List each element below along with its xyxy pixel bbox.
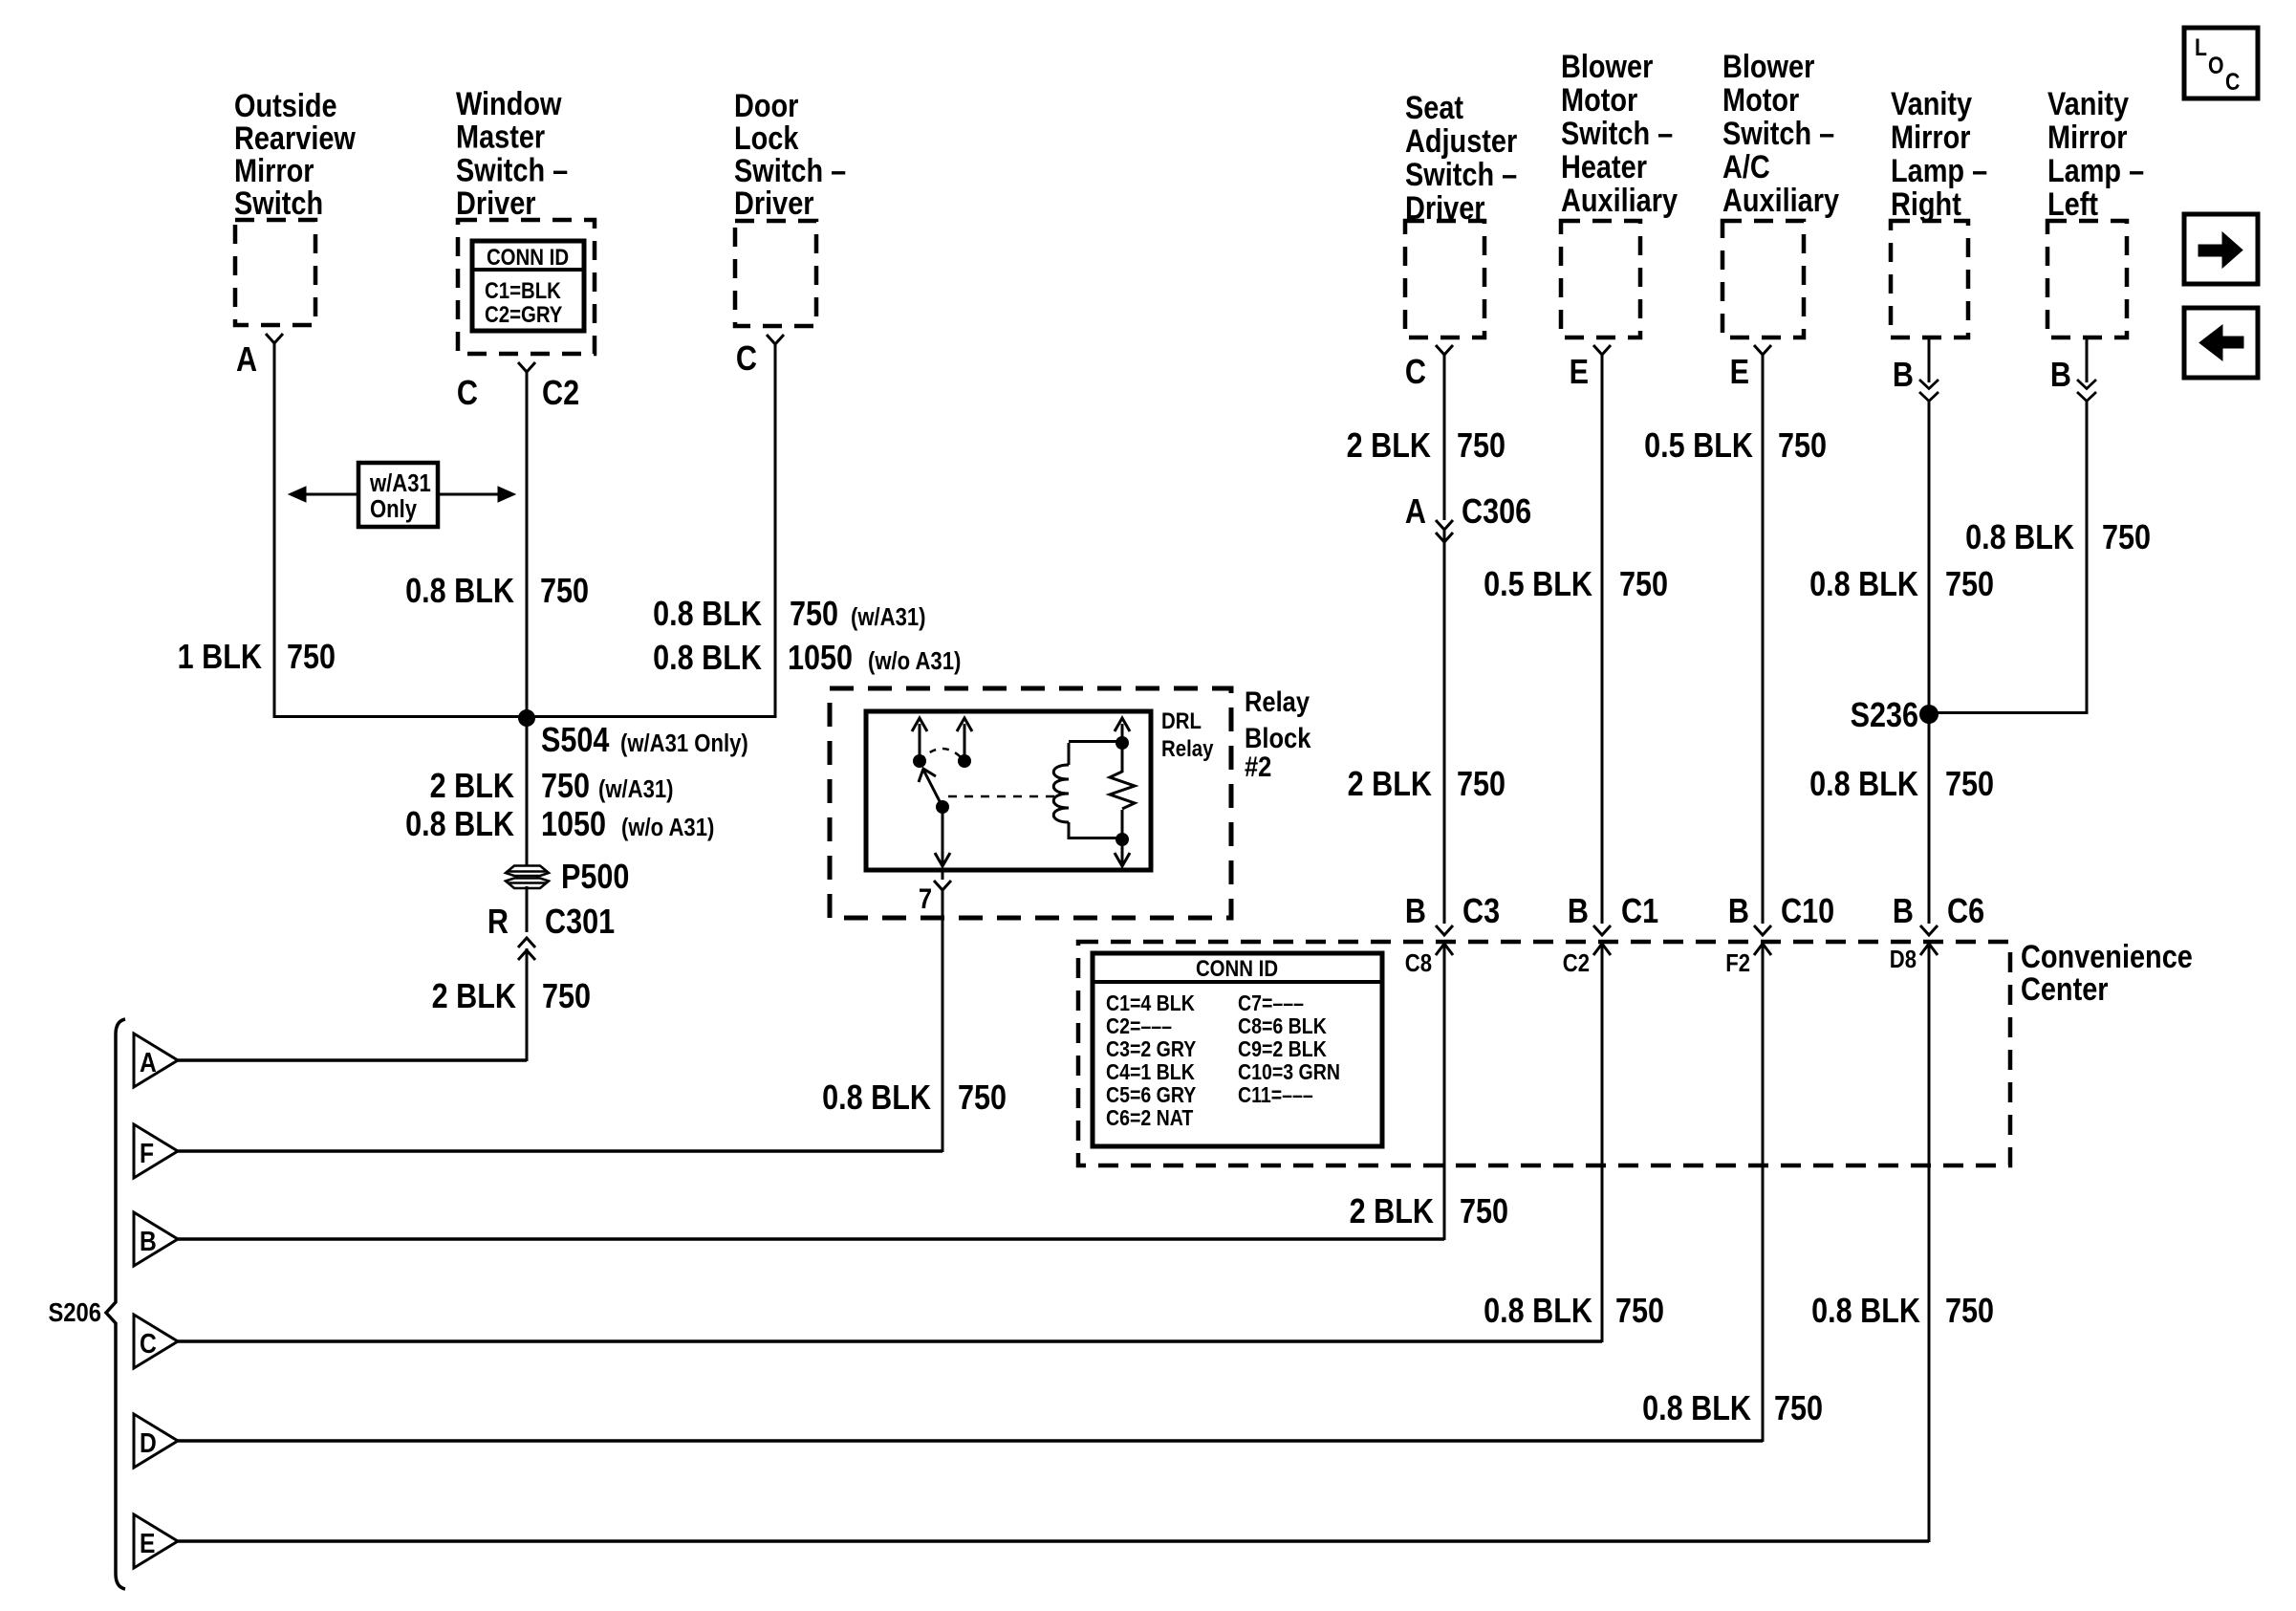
svg-text:750: 750 bbox=[1615, 1293, 1664, 1331]
relay contact: fixed pin arrow up (left) bbox=[919, 724, 921, 761]
next-page arrow box (right arrow) bbox=[2184, 214, 2258, 284]
svg-text:C7=–––: C7=––– bbox=[1238, 991, 1304, 1016]
svg-text:B: B bbox=[2050, 357, 2071, 395]
off-page double arrow (Vanity Left wire) bbox=[2086, 337, 2089, 382]
svg-text:R: R bbox=[487, 903, 509, 942]
svg-text:Driver: Driver bbox=[734, 185, 814, 222]
svg-text:750: 750 bbox=[540, 573, 589, 611]
svg-text:P500: P500 bbox=[561, 859, 629, 897]
svg-text:Mirror: Mirror bbox=[1891, 119, 1970, 156]
svg-text:A/C: A/C bbox=[1722, 148, 1770, 185]
svg-text:A: A bbox=[140, 1047, 157, 1078]
svg-text:750: 750 bbox=[1945, 1293, 1994, 1331]
svg-text:Motor: Motor bbox=[1561, 81, 1637, 119]
svg-text:F: F bbox=[140, 1138, 154, 1168]
relay common wire down with arrowhead bbox=[942, 807, 944, 863]
svg-text:C: C bbox=[457, 375, 478, 413]
svg-text:0.8 BLK: 0.8 BLK bbox=[1809, 566, 1918, 604]
svg-text:Mirror: Mirror bbox=[2047, 119, 2127, 156]
svg-text:2 BLK: 2 BLK bbox=[430, 768, 514, 806]
svg-text:C3=2 GRY: C3=2 GRY bbox=[1106, 1037, 1196, 1062]
wire: Outside Rearview Mirror Switch pin A down bbox=[273, 343, 276, 718]
svg-text:750: 750 bbox=[1945, 766, 1994, 804]
svg-text:DRL: DRL bbox=[1161, 708, 1202, 733]
svg-text:2 BLK: 2 BLK bbox=[1348, 766, 1432, 804]
svg-text:Seat: Seat bbox=[1405, 89, 1463, 126]
S206 terminal triangle A bbox=[134, 1034, 178, 1087]
connector box: Vanity Mirror Lamp Right bbox=[1891, 221, 1968, 337]
wire: S206 leg E horizontal bbox=[176, 1539, 1929, 1543]
svg-text:B: B bbox=[140, 1226, 157, 1256]
svg-text:0.8 BLK: 0.8 BLK bbox=[1642, 1390, 1751, 1428]
svg-text:750: 750 bbox=[1774, 1390, 1823, 1428]
wire: S206 leg D horizontal bbox=[176, 1439, 1763, 1443]
connector box: Outside Rearview Mirror Switch bbox=[235, 220, 315, 325]
connector box: Blower Motor Switch A/C Auxiliary bbox=[1722, 221, 1804, 337]
splice S236 junction dot bbox=[1919, 705, 1939, 724]
svg-text:750: 750 bbox=[1460, 1193, 1508, 1231]
pin chevron C (Door Lock Switch) bbox=[767, 335, 784, 344]
svg-text:S504: S504 bbox=[541, 722, 610, 760]
svg-text:Auxiliary: Auxiliary bbox=[1722, 182, 1839, 219]
svg-text:Lamp –: Lamp – bbox=[1891, 152, 1987, 189]
svg-text:1 BLK: 1 BLK bbox=[178, 639, 262, 677]
svg-text:C4=1 BLK: C4=1 BLK bbox=[1106, 1060, 1195, 1085]
S206 terminal triangle D bbox=[134, 1414, 178, 1468]
svg-text:B: B bbox=[1728, 893, 1749, 931]
svg-text:Switch –: Switch – bbox=[456, 151, 568, 188]
relay contact dot right bbox=[958, 754, 971, 768]
LOC legend box bbox=[2184, 28, 2258, 98]
svg-text:2 BLK: 2 BLK bbox=[432, 978, 516, 1016]
svg-text:C301: C301 bbox=[545, 903, 615, 942]
svg-text:Rearview: Rearview bbox=[234, 120, 356, 157]
svg-text:750: 750 bbox=[790, 596, 838, 634]
svg-text:Window: Window bbox=[456, 85, 562, 122]
svg-text:C8=6 BLK: C8=6 BLK bbox=[1238, 1014, 1327, 1039]
wire: Door Lock Switch C down bbox=[774, 344, 777, 718]
junction dot resistor bottom bbox=[1116, 833, 1129, 846]
svg-text:C1: C1 bbox=[1621, 893, 1658, 931]
relay contact dot left bbox=[913, 754, 926, 768]
relay pin 7 stub below box bbox=[942, 870, 944, 880]
svg-text:F2: F2 bbox=[1725, 949, 1750, 977]
svg-text:#2: #2 bbox=[1245, 751, 1271, 782]
S206 terminal triangle F bbox=[134, 1124, 178, 1178]
svg-text:1050: 1050 bbox=[541, 806, 606, 844]
relay armature arm with arrowhead bbox=[923, 770, 942, 807]
wire: trunk below P500 bbox=[526, 886, 529, 932]
svg-text:(w/A31): (w/A31) bbox=[851, 603, 926, 631]
svg-text:0.5 BLK: 0.5 BLK bbox=[1644, 427, 1753, 466]
svg-text:Vanity: Vanity bbox=[1891, 85, 1973, 122]
svg-text:Blower: Blower bbox=[1722, 48, 1814, 85]
svg-text:7: 7 bbox=[919, 882, 932, 914]
relay resistor zigzag bbox=[1110, 772, 1135, 809]
svg-text:A: A bbox=[236, 341, 257, 380]
svg-text:A: A bbox=[1405, 493, 1426, 532]
svg-text:C2: C2 bbox=[1563, 949, 1590, 977]
svg-text:C2: C2 bbox=[542, 375, 579, 413]
CONN ID table (Convenience Center) bbox=[1093, 953, 1382, 1146]
svg-text:0.8 BLK: 0.8 BLK bbox=[405, 573, 514, 611]
cavity arrow D8 into convenience center bbox=[1928, 944, 1931, 1542]
svg-text:Lock: Lock bbox=[734, 120, 799, 157]
svg-text:CONN ID: CONN ID bbox=[487, 244, 569, 270]
svg-text:B: B bbox=[1405, 893, 1426, 931]
arrow right from w/A31 box bbox=[438, 493, 498, 496]
svg-text:Lamp –: Lamp – bbox=[2047, 152, 2144, 189]
S206 terminal triangle E bbox=[134, 1514, 178, 1568]
svg-text:750: 750 bbox=[1457, 427, 1505, 466]
svg-text:Relay: Relay bbox=[1161, 735, 1214, 761]
connector box: Blower Motor Switch Heater Auxiliary bbox=[1561, 221, 1640, 337]
svg-text:Switch: Switch bbox=[234, 185, 323, 222]
svg-text:C1=BLK: C1=BLK bbox=[485, 277, 561, 303]
svg-text:Driver: Driver bbox=[456, 185, 536, 222]
connector box: Vanity Mirror Lamp Left bbox=[2047, 221, 2127, 337]
wire: trunk below S504 bbox=[526, 718, 529, 866]
svg-text:Only: Only bbox=[370, 495, 418, 523]
svg-text:1050: 1050 bbox=[788, 640, 853, 678]
previous-page arrow box (left arrow) bbox=[2184, 308, 2258, 378]
svg-text:CONN ID: CONN ID bbox=[1196, 955, 1278, 981]
svg-text:750: 750 bbox=[542, 978, 591, 1016]
cavity arrow F2 into convenience center bbox=[1762, 944, 1765, 1442]
svg-text:C306: C306 bbox=[1462, 493, 1531, 532]
svg-text:B: B bbox=[1568, 893, 1589, 931]
svg-text:O: O bbox=[2208, 52, 2224, 78]
relay resistor branch top arrow bbox=[1121, 724, 1124, 773]
pin chevron C (Seat Adjuster Switch) bbox=[1436, 345, 1453, 355]
wire: Window Master Switch C2 down bbox=[526, 372, 529, 718]
svg-text:Switch –: Switch – bbox=[1561, 115, 1673, 152]
connector box: Seat Adjuster Switch bbox=[1405, 221, 1484, 337]
svg-text:C5=6 GRY: C5=6 GRY bbox=[1106, 1083, 1196, 1108]
svg-text:0.8 BLK: 0.8 BLK bbox=[405, 806, 514, 844]
svg-text:Auxiliary: Auxiliary bbox=[1561, 182, 1678, 219]
svg-text:0.5 BLK: 0.5 BLK bbox=[1484, 566, 1592, 604]
Convenience Center dashed enclosure bbox=[1078, 942, 2010, 1165]
svg-text:S236: S236 bbox=[1851, 697, 1918, 735]
svg-text:750: 750 bbox=[1778, 427, 1827, 466]
svg-text:S206: S206 bbox=[48, 1296, 101, 1327]
svg-text:C6=2 NAT: C6=2 NAT bbox=[1106, 1106, 1193, 1131]
connector box: Door Lock Switch - Driver bbox=[735, 221, 816, 326]
svg-text:Door: Door bbox=[734, 87, 798, 124]
svg-text:C: C bbox=[140, 1328, 157, 1359]
w/A31 Only applicability box bbox=[358, 463, 438, 527]
svg-text:Switch –: Switch – bbox=[1722, 115, 1834, 152]
svg-text:E: E bbox=[140, 1528, 155, 1558]
S206 brace bbox=[106, 1019, 125, 1589]
wire: Vanity right B down through S236 to convenience center bbox=[1928, 402, 1931, 924]
S206 terminal triangle B bbox=[134, 1212, 178, 1266]
svg-text:C10: C10 bbox=[1781, 893, 1834, 931]
svg-text:Left: Left bbox=[2047, 185, 2098, 223]
svg-text:E: E bbox=[1570, 354, 1589, 392]
Relay Block #2 dashed enclosure bbox=[830, 688, 1231, 918]
connector box: Window Master Switch - Driver bbox=[458, 220, 595, 354]
relay armature pivot dot bbox=[936, 800, 949, 814]
svg-text:C8: C8 bbox=[1405, 949, 1432, 977]
wire: trunk below C301 to S206 leg A bbox=[526, 948, 529, 1061]
svg-text:750: 750 bbox=[958, 1079, 1007, 1118]
svg-text:Vanity: Vanity bbox=[2047, 85, 2130, 122]
wire: relay pin 7 down to S206 leg F bbox=[942, 890, 944, 1152]
wire: seat adjuster below C306 to convenience center bbox=[1443, 531, 1446, 924]
svg-text:C1=4 BLK: C1=4 BLK bbox=[1106, 991, 1195, 1016]
svg-text:750: 750 bbox=[541, 768, 590, 806]
dashed link armature to coil bbox=[948, 795, 1059, 798]
svg-text:B: B bbox=[1893, 357, 1914, 395]
svg-text:Relay: Relay bbox=[1245, 686, 1310, 717]
wire: S206 leg C horizontal bbox=[176, 1339, 1602, 1343]
svg-text:Switch –: Switch – bbox=[734, 152, 846, 189]
svg-text:C2=–––: C2=––– bbox=[1106, 1014, 1172, 1039]
svg-text:C11=–––: C11=––– bbox=[1238, 1083, 1313, 1108]
junction dot resistor top bbox=[1116, 736, 1129, 750]
svg-text:(w/A31): (w/A31) bbox=[598, 775, 674, 803]
relay coil bottom wire bbox=[1068, 822, 1071, 839]
pin chevron A (Outside Rearview Mirror Switch) bbox=[266, 334, 283, 343]
DRL Relay inner box bbox=[866, 711, 1151, 870]
grommet P500 symbol bbox=[506, 866, 549, 877]
svg-text:750: 750 bbox=[287, 639, 336, 677]
svg-text:C10=3 GRN: C10=3 GRN bbox=[1238, 1060, 1340, 1085]
cavity arrow C2 into convenience center bbox=[1601, 944, 1604, 1342]
svg-text:C: C bbox=[1405, 354, 1426, 392]
svg-text:Outside: Outside bbox=[234, 87, 337, 124]
wire: S206 leg B horizontal bbox=[176, 1237, 1444, 1241]
svg-text:0.8 BLK: 0.8 BLK bbox=[1965, 519, 2074, 557]
svg-text:B: B bbox=[1893, 893, 1914, 931]
svg-text:Blower: Blower bbox=[1561, 48, 1653, 85]
svg-text:Adjuster: Adjuster bbox=[1405, 122, 1517, 160]
svg-text:Mirror: Mirror bbox=[234, 152, 314, 189]
svg-text:L: L bbox=[2195, 33, 2207, 60]
relay coil winding bbox=[1053, 765, 1069, 822]
CONN ID table (Window Master Switch) bbox=[472, 241, 584, 331]
relay resistor branch bottom arrow bbox=[1121, 810, 1124, 863]
svg-text:(w/o A31): (w/o A31) bbox=[868, 647, 961, 675]
svg-text:w/A31: w/A31 bbox=[369, 469, 431, 497]
wire: Seat Adjuster C down to C306 bbox=[1443, 355, 1446, 520]
svg-text:C6: C6 bbox=[1947, 893, 1984, 931]
svg-text:(w/A31 Only): (w/A31 Only) bbox=[620, 729, 748, 757]
svg-text:C: C bbox=[2225, 68, 2241, 95]
pin chevron 7 (Relay Block) bbox=[934, 881, 951, 890]
off-page double arrow (Vanity Right wire) bbox=[1928, 337, 1931, 382]
svg-text:D: D bbox=[140, 1427, 157, 1458]
svg-text:2 BLK: 2 BLK bbox=[1350, 1193, 1434, 1231]
S206 terminal triangle C bbox=[134, 1315, 178, 1368]
connector C301 double chevron up bbox=[518, 938, 535, 947]
svg-text:750: 750 bbox=[2102, 519, 2151, 557]
svg-text:C3: C3 bbox=[1462, 893, 1500, 931]
svg-text:Right: Right bbox=[1891, 185, 1961, 223]
svg-text:Block: Block bbox=[1245, 722, 1311, 753]
svg-text:0.8 BLK: 0.8 BLK bbox=[1811, 1293, 1920, 1331]
pin chevron E (Blower A/C) bbox=[1754, 345, 1771, 355]
svg-text:Convenience: Convenience bbox=[2021, 938, 2193, 975]
svg-text:0.8 BLK: 0.8 BLK bbox=[653, 640, 762, 678]
svg-text:750: 750 bbox=[1945, 566, 1994, 604]
wire: Blower heater E down to convenience center bbox=[1601, 355, 1604, 924]
svg-text:D8: D8 bbox=[1890, 946, 1917, 973]
wire: Vanity left B down to S236 bbox=[2086, 402, 2089, 714]
svg-text:Switch –: Switch – bbox=[1405, 156, 1517, 193]
svg-text:2 BLK: 2 BLK bbox=[1347, 427, 1431, 466]
wire: S206 leg A horizontal bbox=[176, 1058, 527, 1062]
svg-text:(w/o A31): (w/o A31) bbox=[621, 814, 714, 841]
relay coil top wire bbox=[1068, 743, 1071, 765]
svg-text:Motor: Motor bbox=[1722, 81, 1799, 119]
arrow left from w/A31 box bbox=[304, 493, 358, 496]
wire: S206 leg F horizontal bbox=[176, 1149, 942, 1153]
svg-text:Heater: Heater bbox=[1561, 148, 1647, 185]
svg-text:0.8 BLK: 0.8 BLK bbox=[653, 596, 762, 634]
svg-text:750: 750 bbox=[1457, 766, 1505, 804]
pin chevron E (Blower heater) bbox=[1593, 345, 1611, 355]
svg-text:E: E bbox=[1730, 354, 1749, 392]
pin chevron C (Window Master Switch) bbox=[518, 362, 535, 372]
splice S504 junction dot bbox=[518, 709, 535, 727]
cavity arrow C8 into convenience center bbox=[1443, 944, 1446, 1240]
svg-text:Center: Center bbox=[2021, 970, 2109, 1008]
svg-text:Master: Master bbox=[456, 118, 545, 155]
svg-text:0.8 BLK: 0.8 BLK bbox=[1809, 766, 1918, 804]
dashed arc between contacts bbox=[920, 749, 964, 761]
svg-text:C2=GRY: C2=GRY bbox=[485, 301, 563, 327]
svg-text:750: 750 bbox=[1619, 566, 1668, 604]
wire: Blower A/C E down to convenience center bbox=[1762, 355, 1765, 924]
wire: vanity left horizontal to S236 bbox=[1929, 711, 2087, 714]
svg-text:0.8 BLK: 0.8 BLK bbox=[1484, 1293, 1592, 1331]
svg-text:C9=2 BLK: C9=2 BLK bbox=[1238, 1037, 1327, 1062]
svg-text:C: C bbox=[736, 340, 757, 379]
relay contact: fixed pin arrow up (right) bbox=[964, 724, 966, 761]
wire: ground bus horizontal joining three switches bbox=[274, 715, 775, 718]
svg-text:0.8 BLK: 0.8 BLK bbox=[822, 1079, 931, 1118]
